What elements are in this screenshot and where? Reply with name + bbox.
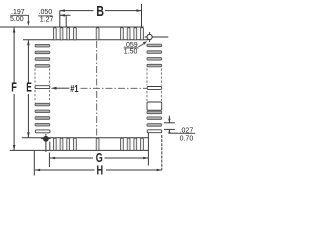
- wire G left extension: [48, 153, 50, 168]
- svg-text:1.50: 1.50: [124, 49, 138, 56]
- svg-text:.050: .050: [39, 9, 53, 16]
- node pitch dimension .050: [60, 14, 71, 27]
- pad L last outline: [35, 130, 50, 133]
- pads: left edge horizontal bars: [35, 44, 50, 126]
- wire top outer extension line: [0, 26, 144, 28]
- wire right gap dashed frame: [146, 69, 148, 86]
- wire B left extension: [59, 11, 61, 27]
- pad L8: [35, 117, 50, 120]
- node corner hole circle top-right: [145, 32, 169, 42]
- pad L pin1 elongated: [35, 86, 50, 89]
- node B dimension line: [60, 4, 142, 27]
- svg-text:#1: #1: [70, 83, 78, 95]
- svg-text:F: F: [11, 80, 17, 94]
- node label fraction .050 over 1.27: [38, 9, 53, 23]
- pad R center outline: [147, 87, 162, 90]
- svg-text:1.27: 1.27: [40, 16, 54, 23]
- wire bottom outer extension line: [10, 149, 149, 151]
- pad T9: [141, 28, 144, 40]
- pad B8: [134, 138, 137, 150]
- pad R7: [147, 117, 162, 120]
- wire G right extension: [147, 133, 149, 166]
- pad L6: [35, 103, 50, 106]
- pad R last outline: [147, 130, 162, 133]
- pad T center: [96, 28, 99, 40]
- pad R3: [147, 58, 162, 61]
- node corner pad filled bottom-left: [41, 134, 51, 152]
- pad T1: [53, 28, 56, 40]
- wire package top edge: [23, 39, 148, 41]
- pad B7: [127, 138, 130, 150]
- pad L4: [35, 65, 50, 68]
- pad B2: [60, 138, 63, 150]
- pad B4: [74, 138, 77, 150]
- pad L1: [35, 44, 50, 47]
- node vertical center line: [96, 29, 98, 151]
- svg-text:H: H: [97, 164, 104, 178]
- wire H right extension dotted: [161, 135, 163, 170]
- node F dimension line: [13, 27, 16, 150]
- svg-text:5.00: 5.00: [10, 16, 24, 23]
- pad L7: [35, 110, 50, 113]
- node E dimension line: [27, 40, 30, 138]
- pads: top edge vertical slots: [53, 28, 143, 40]
- pad T6: [121, 28, 124, 40]
- svg-text:B: B: [96, 3, 104, 20]
- pad B6: [121, 138, 124, 150]
- pad R8: [147, 124, 162, 127]
- pad L2: [35, 51, 50, 54]
- wire B right extension: [141, 4, 143, 27]
- wire H left extension: [33, 151, 35, 176]
- node label pin1 with leader arrow: [51, 83, 79, 95]
- wire left gap dashed frame upper: [35, 69, 161, 103]
- node width dim .027 ticks: [164, 116, 178, 134]
- node label fraction .197 over 5.00: [10, 9, 30, 26]
- pad T8: [134, 28, 137, 40]
- wire package bottom edge: [22, 137, 149, 139]
- pad T4: [74, 28, 77, 40]
- pad R6: [147, 111, 162, 114]
- pad T7: [127, 28, 130, 40]
- pad T2: [60, 28, 63, 40]
- pad B center: [96, 138, 99, 150]
- node G dimension line: [49, 133, 148, 167]
- pad B1: [53, 138, 56, 150]
- pad L3: [35, 58, 50, 61]
- svg-text:0.70: 0.70: [180, 136, 194, 143]
- pad R1: [147, 44, 162, 47]
- pad R4: [147, 64, 162, 67]
- wire pitch right extension: [65, 15, 67, 26]
- pad B9: [141, 138, 144, 150]
- wire corner stub bottom-left: [49, 142, 51, 151]
- pads: bottom edge vertical slots: [53, 138, 143, 150]
- node label fraction .059 over 1.50: [124, 41, 148, 55]
- svg-text:E: E: [26, 80, 32, 94]
- pad R2: [147, 51, 162, 54]
- node H dimension line: [34, 135, 162, 176]
- pad R tall outline: [147, 102, 162, 110]
- pads: right edge horizontal bars: [147, 44, 162, 126]
- pad T3: [67, 28, 70, 40]
- pad L9: [35, 123, 50, 126]
- node horizontal center line: [81, 87, 162, 89]
- node label fraction .027 over 0.70: [178, 128, 195, 143]
- pad B3: [67, 138, 70, 150]
